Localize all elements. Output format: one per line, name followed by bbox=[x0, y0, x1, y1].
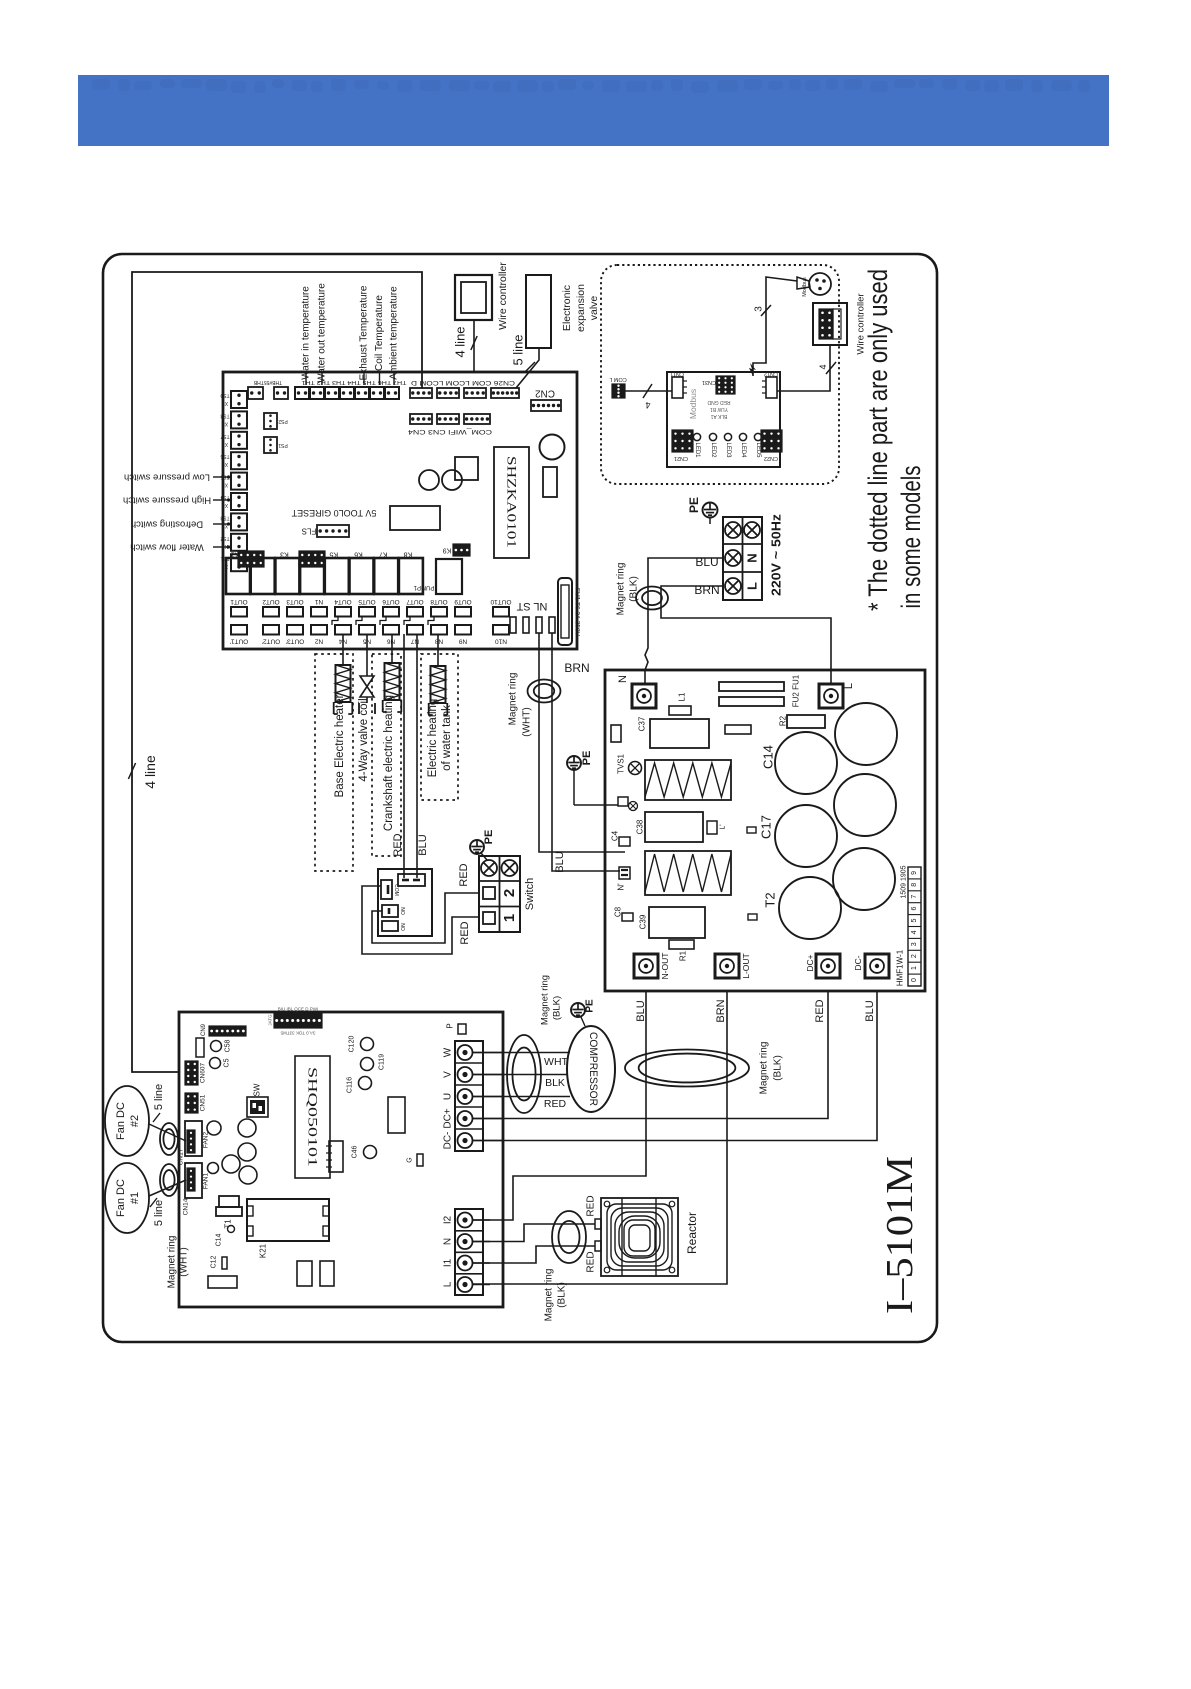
svg-text:LED3: LED3 bbox=[725, 442, 731, 458]
terminal N' bbox=[619, 867, 630, 879]
main control board SHZKA0101 bbox=[223, 372, 577, 649]
svg-text:Exhaust Temperature: Exhaust Temperature bbox=[359, 285, 370, 380]
svg-text:Electronic: Electronic bbox=[561, 285, 573, 331]
svg-text:PUMP1: PUMP1 bbox=[413, 584, 434, 590]
svg-text:BLU: BLU bbox=[417, 834, 429, 855]
svg-text:C119: C119 bbox=[379, 1054, 386, 1070]
capacitor C38 block bbox=[645, 812, 703, 842]
svg-text:5 line: 5 line bbox=[153, 1200, 165, 1226]
svg-text:in some models: in some models bbox=[896, 466, 926, 609]
wire fan1 bbox=[149, 1180, 186, 1196]
links between fuse rows bbox=[332, 617, 338, 626]
black connector A bbox=[238, 551, 264, 567]
dashed box: base electric heater bbox=[315, 654, 353, 871]
svg-text:Water in temperature: Water in temperature bbox=[301, 286, 312, 380]
relay K1 bbox=[226, 558, 250, 594]
svg-text:OUT1: OUT1 bbox=[230, 598, 248, 605]
svg-text:COM L: COM L bbox=[609, 376, 626, 382]
svg-text:U: U bbox=[443, 1093, 454, 1100]
wire controller icon (top) bbox=[455, 275, 492, 320]
relay K2 bbox=[251, 558, 275, 594]
output fuse OUT8 bbox=[431, 607, 447, 617]
svg-text:BLU: BLU bbox=[635, 1000, 647, 1021]
svg-text:WHT: WHT bbox=[544, 1056, 568, 1068]
IC SHZKA0101 bbox=[494, 447, 529, 558]
terminal N bbox=[632, 684, 656, 708]
svg-text:BLK: BLK bbox=[545, 1077, 565, 1089]
earth terminal entry bbox=[618, 797, 628, 806]
part bottom-left of fan board bbox=[208, 1276, 237, 1288]
output fuse N1 bbox=[311, 607, 327, 617]
svg-text:5 line: 5 line bbox=[153, 1084, 165, 1110]
svg-text:CN51: CN51 bbox=[200, 1094, 207, 1111]
svg-text:Low pressure switch: Low pressure switch bbox=[124, 472, 210, 483]
svg-text:L': L' bbox=[720, 824, 727, 829]
svg-text:BLU: BLU bbox=[695, 555, 718, 569]
connector CN22 bbox=[761, 430, 782, 452]
svg-text:High pressure switch: High pressure switch bbox=[123, 495, 211, 506]
svg-text:CN11: CN11 bbox=[670, 371, 684, 377]
electrolytic capacitor 5 bbox=[833, 848, 895, 910]
relay block (power board) bbox=[650, 719, 709, 748]
svg-text:N: N bbox=[745, 553, 760, 562]
svg-text:OUT10: OUT10 bbox=[490, 598, 511, 605]
svg-text:K2: K2 bbox=[255, 551, 264, 558]
svg-text:PS2: PS2 bbox=[278, 418, 288, 424]
svg-text:L: L bbox=[443, 1281, 454, 1287]
sensor labels above main board bbox=[305, 372, 307, 385]
outer diagram frame bbox=[103, 254, 937, 1342]
wire NLST to power board earth bbox=[539, 633, 625, 852]
capacitor C39 block bbox=[649, 907, 705, 938]
svg-text:OUT2: OUT2 bbox=[262, 598, 280, 605]
output fuse OUT7 bbox=[407, 607, 423, 617]
svg-text:1: 1 bbox=[911, 966, 918, 970]
relay K4 bbox=[300, 558, 324, 594]
svg-text:C4: C4 bbox=[611, 830, 620, 841]
modbus plug connector (3-pin round) bbox=[809, 273, 831, 295]
capacitor C58 bbox=[211, 1041, 222, 1052]
wire controller (modbus version) bbox=[813, 303, 847, 345]
svg-text:5: 5 bbox=[911, 918, 918, 922]
mains terminal block L N 220V bbox=[723, 517, 762, 600]
modbus module board bbox=[667, 372, 780, 467]
connector CN12 bbox=[766, 377, 777, 398]
svg-text:OUT3: OUT3 bbox=[286, 598, 304, 605]
wire: N terminal to power board N via ring bbox=[645, 558, 723, 684]
svg-text:N': N' bbox=[617, 883, 626, 891]
svg-text:Water out temperature: Water out temperature bbox=[317, 283, 328, 383]
svg-text:C120: C120 bbox=[349, 1036, 356, 1053]
output fuse OUT10 bbox=[493, 607, 509, 617]
label P bbox=[458, 1024, 466, 1034]
relay K7 bbox=[374, 558, 398, 594]
connector PS2 bbox=[264, 413, 277, 429]
inductor L' bbox=[707, 821, 717, 834]
svg-text:C58: C58 bbox=[225, 1039, 232, 1052]
wire: wire controller to CN12, 4 line bbox=[777, 345, 830, 391]
input connector X2 TS2 bbox=[231, 534, 247, 551]
svg-text:CN9: CN9 bbox=[201, 1023, 207, 1036]
svg-text:K6: K6 bbox=[354, 551, 363, 558]
svg-text:(BLK): (BLK) bbox=[557, 1282, 568, 1308]
connector TH7 bbox=[295, 387, 309, 399]
svg-text:Coil Temperature: Coil Temperature bbox=[374, 295, 385, 371]
svg-text:TS9: TS9 bbox=[220, 392, 229, 398]
output fuse N5 bbox=[359, 625, 375, 635]
svg-text:C46: C46 bbox=[352, 1145, 359, 1158]
connector COM L bbox=[612, 384, 625, 398]
svg-text:(BLK): (BLK) bbox=[773, 1055, 784, 1081]
blue title banner bbox=[78, 75, 1109, 146]
svg-text:R2: R2 bbox=[779, 715, 788, 726]
svg-text:HMF1W-1: HMF1W-1 bbox=[896, 949, 905, 986]
svg-text:FU1 T6.3A 250V: FU1 T6.3A 250V bbox=[574, 588, 581, 637]
connector TH6 bbox=[310, 387, 324, 399]
relay K3 bbox=[275, 558, 299, 594]
dip switch SW bbox=[247, 1097, 268, 1117]
indicator LED3 bbox=[724, 433, 731, 440]
svg-text:OUT9: OUT9 bbox=[454, 598, 472, 605]
svg-text:K9: K9 bbox=[443, 547, 452, 554]
wire N-OUT BLU bbox=[472, 991, 646, 1220]
svg-text:BRN: BRN bbox=[715, 999, 727, 1022]
svg-text:* The dotted line part are onl: * The dotted line part are only used bbox=[863, 269, 893, 611]
connector CN21 bbox=[672, 430, 693, 452]
svg-text:I–5101M: I–5101M bbox=[879, 1156, 921, 1314]
svg-text:valve: valve bbox=[588, 296, 600, 321]
svg-text:LED4: LED4 bbox=[740, 442, 746, 458]
black connector B bbox=[299, 551, 325, 567]
svg-text:V: V bbox=[443, 1071, 454, 1078]
terminal DC+ bbox=[816, 954, 840, 978]
svg-text:SHQ050101: SHQ050101 bbox=[306, 1067, 320, 1167]
output fuse OUT3 bbox=[287, 607, 303, 617]
svg-text:OUT8: OUT8 bbox=[430, 598, 448, 605]
fuses FU2 FU1 bbox=[719, 682, 784, 691]
svg-text:#1: #1 bbox=[129, 1192, 141, 1204]
svg-text:Magnet ring: Magnet ring bbox=[616, 563, 627, 616]
svg-text:RED: RED bbox=[392, 833, 404, 856]
svg-text:DC+: DC+ bbox=[443, 1108, 454, 1128]
svg-text:OUT5: OUT5 bbox=[358, 598, 376, 605]
magnet ring BLK (mains) bbox=[636, 587, 668, 610]
wire: modbus module CN31 to plug, 3 line bbox=[753, 277, 797, 376]
svg-text:Fan DC: Fan DC bbox=[115, 1102, 127, 1140]
wire contactor NO to switch 2 bbox=[372, 893, 479, 943]
svg-text:K5: K5 bbox=[329, 551, 338, 558]
output fuse N9 bbox=[455, 625, 471, 635]
svg-text:4: 4 bbox=[645, 400, 650, 410]
svg-text:TS8: TS8 bbox=[220, 412, 229, 418]
small rect below round part bbox=[543, 467, 557, 497]
svg-text:RED: RED bbox=[586, 1251, 597, 1272]
wire fan2 bbox=[149, 1124, 186, 1141]
output fuse OUT2 bbox=[263, 607, 279, 617]
svg-text:C8: C8 bbox=[614, 906, 623, 917]
cap tick C17 bbox=[747, 827, 756, 833]
terminal block W V U DC+ DC- bbox=[455, 1041, 483, 1151]
svg-text:2: 2 bbox=[911, 954, 918, 958]
relay K5 bbox=[325, 558, 349, 594]
wire: wire controller to main board CN26, 4 line bbox=[473, 320, 475, 372]
small part near R2 bbox=[725, 725, 751, 734]
cap tick T2 bbox=[748, 914, 757, 920]
svg-text:220V ~ 50Hz: 220V ~ 50Hz bbox=[769, 513, 784, 596]
svg-text:K3: K3 bbox=[280, 551, 289, 558]
svg-text:I2: I2 bbox=[443, 1215, 454, 1224]
svg-text:2: 2 bbox=[501, 889, 518, 897]
svg-text:N: N bbox=[617, 675, 629, 683]
output fuse OUT3' bbox=[287, 625, 303, 635]
svg-text:N: N bbox=[443, 1238, 454, 1245]
svg-text:TH7 TH6 TH5 TH4 TH3 TH2 TH1: TH7 TH6 TH5 TH4 TH3 TH2 TH1 bbox=[302, 379, 407, 385]
svg-text:BIU IBL QCE D PWI: BIU IBL QCE D PWI bbox=[278, 1007, 319, 1012]
output fuse OUT5 bbox=[359, 607, 375, 617]
svg-text:FLS: FLS bbox=[302, 527, 317, 536]
terminal L-OUT bbox=[715, 954, 739, 978]
part near CN9 bbox=[196, 1038, 204, 1057]
svg-text:OUT2': OUT2' bbox=[262, 638, 281, 645]
capacitor C4 bbox=[619, 837, 630, 846]
connector FAN2 bbox=[185, 1121, 202, 1156]
svg-text:C17: C17 bbox=[759, 815, 774, 839]
svg-text:X9: X9 bbox=[222, 400, 228, 406]
svg-text:#2: #2 bbox=[129, 1115, 141, 1127]
input connector X7 TS7 bbox=[231, 432, 247, 449]
svg-text:FAN2: FAN2 bbox=[203, 1131, 210, 1148]
connector TH2 bbox=[370, 387, 384, 399]
svg-text:Wire controller: Wire controller bbox=[497, 262, 509, 330]
svg-text:COM: COM bbox=[393, 884, 399, 896]
wire I1 to reactor bbox=[472, 1246, 595, 1263]
svg-text:1509 1905: 1509 1905 bbox=[901, 865, 908, 898]
svg-text:COMPRESSOR: COMPRESSOR bbox=[587, 1032, 599, 1106]
connector CN607 bbox=[185, 1061, 198, 1085]
input connector X9 TS9 bbox=[231, 391, 247, 408]
input connector X6 TS6 bbox=[231, 452, 247, 469]
output fuse OUT2' bbox=[263, 625, 279, 635]
svg-text:1: 1 bbox=[501, 914, 518, 922]
svg-text:CN31: CN31 bbox=[702, 379, 716, 385]
connectors CN4 CN3 COM_WIFI bbox=[410, 414, 432, 424]
electronic expansion valve bbox=[526, 275, 551, 348]
svg-text:BLK A1: BLK A1 bbox=[710, 413, 727, 419]
indicator LED2 bbox=[709, 433, 716, 440]
svg-text:K1: K1 bbox=[231, 551, 240, 558]
svg-text:4 line: 4 line bbox=[142, 755, 158, 789]
svg-text:BRN: BRN bbox=[564, 661, 589, 675]
svg-text:Switch: Switch bbox=[524, 878, 536, 910]
transformer T2 (power board) bbox=[645, 851, 731, 895]
board id SHQ050101 bbox=[295, 1056, 330, 1178]
output fuse OUT1' bbox=[231, 625, 247, 635]
resistor R1 bbox=[669, 940, 694, 949]
electrolytic capacitor 4 bbox=[775, 805, 837, 867]
svg-text:RED: RED bbox=[814, 999, 826, 1022]
vias and caps on fan board bbox=[207, 1121, 221, 1135]
svg-text:N8: N8 bbox=[434, 638, 443, 645]
svg-text:DC-: DC- bbox=[443, 1132, 454, 1150]
switch terminal block bbox=[479, 856, 520, 932]
dashed box: 4-way valve + crankshaft heater bbox=[372, 654, 401, 856]
input connector X5 TS5 bbox=[231, 473, 247, 490]
svg-text:X5: X5 bbox=[222, 482, 228, 488]
svg-text:Modbus: Modbus bbox=[688, 389, 698, 419]
svg-text:Ambient temperature: Ambient temperature bbox=[389, 286, 400, 380]
svg-text:CN607: CN607 bbox=[200, 1062, 207, 1083]
svg-text:THB#55THB: THB#55THB bbox=[253, 379, 282, 385]
svg-text:C37: C37 bbox=[638, 716, 647, 731]
transformer T1 (fan board) bbox=[219, 1196, 239, 1207]
svg-text:P: P bbox=[446, 1023, 455, 1028]
PE symbol near power board bbox=[567, 756, 581, 770]
svg-text:4: 4 bbox=[818, 364, 828, 369]
svg-text:L: L bbox=[843, 683, 855, 689]
fuse FU1 bbox=[558, 578, 572, 645]
svg-text:LED5: LED5 bbox=[755, 442, 761, 458]
svg-text:N-OUT: N-OUT bbox=[660, 953, 670, 980]
svg-text:N1: N1 bbox=[314, 598, 323, 605]
capacitor C37 bbox=[611, 725, 621, 742]
input connector X8 TS8 bbox=[231, 411, 247, 428]
svg-text:CN12: CN12 bbox=[764, 371, 778, 377]
capacitor C8 bbox=[622, 913, 633, 921]
output fuse N6 bbox=[383, 625, 399, 635]
relay K9 PUMP1 bbox=[436, 559, 462, 594]
terminal L bbox=[819, 684, 843, 708]
svg-text:N9: N9 bbox=[458, 638, 467, 645]
svg-text:G: G bbox=[407, 1157, 414, 1162]
svg-text:BLU: BLU bbox=[864, 1000, 876, 1021]
output fuse OUT6 bbox=[383, 607, 399, 617]
svg-text:PE: PE bbox=[483, 830, 495, 845]
svg-text:X2: X2 bbox=[222, 543, 228, 549]
svg-text:expansion: expansion bbox=[575, 284, 587, 332]
power board HMF1W-1 bbox=[605, 670, 925, 991]
svg-text:N6: N6 bbox=[386, 638, 395, 645]
svg-text:TS7: TS7 bbox=[220, 433, 229, 439]
svg-text:4-Way valve coil: 4-Way valve coil bbox=[358, 698, 370, 781]
svg-text:LED1: LED1 bbox=[694, 442, 700, 458]
fan DC #1 ellipse bbox=[105, 1163, 149, 1233]
svg-text:TS3: TS3 bbox=[220, 514, 229, 520]
magnet ring BLK (DC wires) bbox=[625, 1050, 749, 1087]
svg-text:9: 9 bbox=[911, 871, 918, 875]
connector CN9 bbox=[209, 1026, 246, 1036]
compressor bbox=[567, 1026, 615, 1112]
svg-text:N2: N2 bbox=[314, 638, 323, 645]
svg-text:T2: T2 bbox=[763, 892, 778, 907]
wires U V W to compressor bbox=[472, 1052, 570, 1054]
output fuse N8 bbox=[431, 625, 447, 635]
connector FAN1 bbox=[185, 1163, 202, 1198]
contactor NO contact 2 bbox=[382, 921, 398, 931]
svg-text:K4: K4 bbox=[305, 551, 314, 558]
svg-text:C14: C14 bbox=[761, 745, 776, 769]
output fuse N10 bbox=[493, 625, 509, 635]
PE symbol (switch) bbox=[470, 840, 484, 854]
connector TH3 bbox=[355, 387, 369, 399]
connector PS1 bbox=[264, 437, 277, 453]
wire BLU to contactor coil bbox=[416, 634, 418, 878]
relay K8 bbox=[399, 558, 423, 594]
crankshaft heater element bbox=[391, 634, 393, 663]
capacitor C14 (fan board) bbox=[228, 1226, 235, 1233]
svg-text:Electric heating: Electric heating bbox=[427, 699, 439, 778]
output fuse N7 bbox=[407, 625, 423, 635]
connector THB pair bbox=[248, 387, 263, 399]
part right-middle of fan board bbox=[388, 1097, 405, 1133]
wire contactor COM to switch 1 bbox=[362, 886, 479, 954]
svg-text:PE: PE bbox=[687, 497, 701, 513]
svg-text:CN17: CN17 bbox=[178, 1148, 185, 1165]
magnet ring WHT bbox=[528, 680, 561, 703]
base electric heater element bbox=[342, 634, 344, 665]
output fuse OUT1 bbox=[231, 607, 247, 617]
svg-text:3: 3 bbox=[754, 306, 765, 312]
svg-text:N7: N7 bbox=[410, 638, 419, 645]
magnet ring (reactor) bbox=[552, 1211, 586, 1263]
svg-text:RED: RED bbox=[586, 1195, 597, 1216]
input connector X4 TS4 bbox=[231, 493, 247, 510]
output fuse N2 bbox=[311, 625, 327, 635]
connector TH1 bbox=[385, 387, 399, 399]
svg-text:C5: C5 bbox=[224, 1058, 231, 1067]
svg-text:TS2: TS2 bbox=[220, 535, 229, 541]
big round part bbox=[540, 435, 565, 460]
svg-text:X6: X6 bbox=[222, 461, 228, 467]
input connector X1 TS1 bbox=[231, 554, 247, 571]
electrolytic capacitor 3 bbox=[834, 774, 896, 836]
input connector X3 TS3 bbox=[231, 513, 247, 530]
svg-text:C38: C38 bbox=[636, 819, 645, 834]
svg-text:Defrosting switch: Defrosting switch bbox=[131, 519, 203, 530]
fuse parts bottom of fan board bbox=[297, 1261, 312, 1286]
wire DC- BLU bbox=[472, 991, 877, 1141]
svg-text:CN26 COM LCOM LCOM D: CN26 COM LCOM LCOM D bbox=[410, 379, 515, 385]
capacitor C5 bbox=[210, 1058, 221, 1069]
indicator LED5 bbox=[754, 433, 761, 440]
svg-text:CN21: CN21 bbox=[674, 455, 688, 461]
magnet ring (fan2) bbox=[160, 1123, 178, 1155]
svg-text:JATG: JATG bbox=[268, 1014, 273, 1026]
contactor coil terminals bbox=[398, 874, 425, 886]
wire L-OUT BRN bbox=[472, 991, 727, 1284]
4-way valve coil bbox=[366, 634, 368, 676]
svg-text:Magnet ring: Magnet ring bbox=[508, 673, 519, 726]
svg-text:OUT6: OUT6 bbox=[382, 598, 400, 605]
wire: L terminal to power board L bbox=[661, 586, 831, 684]
water tank heater element bbox=[437, 634, 439, 666]
svg-text:6: 6 bbox=[911, 907, 918, 911]
svg-text:TS6: TS6 bbox=[220, 453, 229, 459]
contactor NO contact 1 bbox=[382, 905, 398, 917]
svg-text:0: 0 bbox=[911, 978, 918, 982]
connector TH5 bbox=[325, 387, 339, 399]
svg-text:Magnet ring: Magnet ring bbox=[167, 1236, 178, 1289]
svg-text:C14: C14 bbox=[216, 1233, 223, 1246]
svg-text:Magnet ring: Magnet ring bbox=[544, 1269, 555, 1322]
svg-text:RED GND: RED GND bbox=[707, 399, 730, 405]
svg-text:I1: I1 bbox=[443, 1258, 454, 1267]
svg-text:OUT7: OUT7 bbox=[406, 598, 424, 605]
svg-text:(WHT): (WHT) bbox=[522, 707, 533, 736]
wire N to reactor bbox=[472, 1224, 595, 1242]
output fuse OUT9 bbox=[455, 607, 471, 617]
connector CN51 bbox=[185, 1093, 198, 1113]
indicator LED4 bbox=[739, 433, 746, 440]
